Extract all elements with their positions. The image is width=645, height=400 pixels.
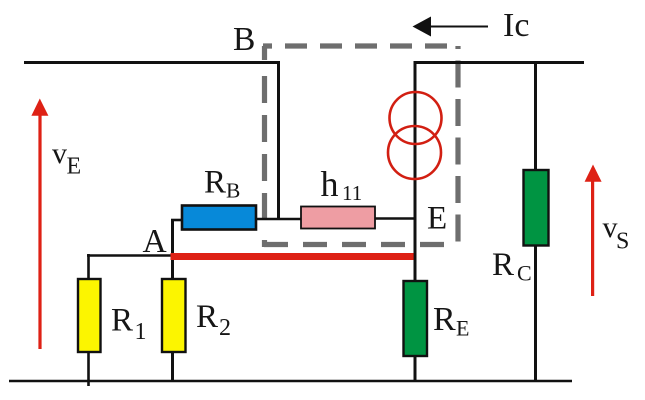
svg-text:S: S xyxy=(616,229,629,255)
svg-text:E: E xyxy=(427,201,447,237)
svg-text:1: 1 xyxy=(135,319,147,345)
wire bottom rail xyxy=(9,380,572,383)
resistor R2 (yellow) xyxy=(162,279,186,352)
dashed transistor outline top xyxy=(263,43,458,48)
svg-text:R: R xyxy=(433,301,456,338)
dashed transistor outline left xyxy=(262,46,267,247)
wire node A to RB left xyxy=(171,219,183,222)
vS arrowhead xyxy=(585,165,602,182)
Ic arrow line xyxy=(429,26,488,28)
svg-text:B: B xyxy=(226,179,240,203)
resistor RE (green) xyxy=(404,281,428,356)
svg-text:R: R xyxy=(204,165,226,201)
svg-text:h: h xyxy=(321,164,339,204)
resistor RC (green) xyxy=(524,170,549,246)
resistor R1 (yellow) xyxy=(78,279,101,352)
dashed transistor outline right xyxy=(455,46,460,244)
svg-text:Ic: Ic xyxy=(503,7,529,44)
svg-text:C: C xyxy=(517,261,532,286)
wire R1 to node A xyxy=(87,254,172,257)
wire top rail right segment xyxy=(414,61,585,64)
svg-text:E: E xyxy=(456,316,469,341)
svg-text:A: A xyxy=(143,223,167,260)
svg-text:R: R xyxy=(196,299,218,335)
current source circle lower xyxy=(388,126,441,179)
wire R1 bottom stub xyxy=(87,351,90,386)
svg-text:E: E xyxy=(67,154,82,180)
vS arrow line xyxy=(591,178,594,296)
wire RC branch lower xyxy=(534,244,537,382)
svg-text:11: 11 xyxy=(342,181,362,205)
wire emitter below RE to bottom rail xyxy=(414,355,417,382)
resistor h11 (pink) xyxy=(301,207,375,229)
wire h11 right to node E xyxy=(374,217,416,220)
dashed transistor outline bottom xyxy=(264,242,459,247)
wire RC branch upper xyxy=(534,61,537,171)
svg-text:v: v xyxy=(52,137,67,170)
svg-text:R: R xyxy=(492,247,514,283)
Ic arrowhead xyxy=(413,17,432,37)
svg-text:R: R xyxy=(111,303,133,339)
wire node A vertical lower xyxy=(171,351,174,381)
svg-text:B: B xyxy=(233,21,255,58)
red wire A to E (thick) xyxy=(171,253,414,260)
current source circle upper xyxy=(390,92,442,144)
wire RB right to h11 left xyxy=(255,218,302,221)
wire B vertical drop xyxy=(277,61,280,220)
vE arrow line xyxy=(38,112,41,349)
vE arrowhead xyxy=(31,99,48,116)
wire node A vertical upper xyxy=(171,219,174,280)
resistor RB (blue) xyxy=(182,206,256,230)
wire top rail left segment xyxy=(24,61,280,64)
wire R1 top stub xyxy=(87,254,90,280)
svg-text:2: 2 xyxy=(219,315,231,341)
wire collector/emitter vertical through current source xyxy=(414,61,417,281)
